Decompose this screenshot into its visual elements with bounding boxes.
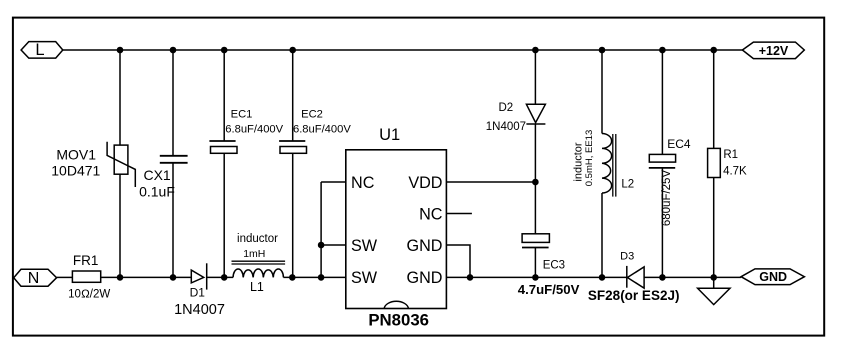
svg-text:inductor: inductor (572, 142, 584, 181)
svg-text:inductor: inductor (237, 233, 278, 245)
svg-text:GND: GND (407, 269, 443, 287)
svg-text:L2: L2 (621, 178, 634, 190)
IC U1 PN8036 (346, 126, 447, 330)
svg-text:1N4007: 1N4007 (486, 121, 526, 133)
wire D3 to GND terminal (644, 276, 741, 278)
junction SW bus (318, 242, 325, 249)
svg-text:L: L (35, 41, 44, 59)
wire FR1 to D1 (101, 276, 192, 278)
varistor MOV1 (51, 50, 135, 277)
inductor L2 (572, 50, 634, 277)
svg-text:0.1uF: 0.1uF (139, 184, 175, 200)
wire U1 VDD to D2 line (446, 181, 535, 183)
resistor FR1 (68, 253, 110, 301)
terminal L (21, 41, 63, 59)
svg-text:+12V: +12V (759, 44, 789, 58)
svg-text:4.7K: 4.7K (723, 166, 747, 178)
svg-text:L1: L1 (250, 280, 264, 294)
capacitor EC1 (209, 50, 283, 277)
terminal +12V (742, 42, 804, 59)
terminal N (14, 269, 57, 287)
junction EC3 bottom rail (532, 274, 539, 281)
diode D1 (174, 263, 225, 318)
junction SW bus bottom rail (318, 274, 325, 281)
svg-text:10Ω/2W: 10Ω/2W (68, 289, 110, 301)
svg-text:R1: R1 (723, 149, 738, 161)
capacitor EC4 (649, 50, 691, 277)
inductor L1 (232, 233, 286, 294)
svg-text:D2: D2 (498, 102, 513, 114)
svg-text:FR1: FR1 (73, 253, 99, 268)
wire N to FR1 (57, 276, 73, 278)
svg-text:6.8uF/400V: 6.8uF/400V (225, 123, 283, 135)
svg-text:EC4: EC4 (667, 137, 691, 151)
diode D2 (486, 50, 546, 234)
wire U1 GND2 to D3 (446, 276, 626, 278)
wire NC/SW bus left of U1 (321, 182, 346, 277)
junction D2 top rail (532, 47, 539, 54)
junction CX1 top rail (170, 47, 177, 54)
wire U1 NC stub (446, 213, 472, 215)
capacitor EC3 (518, 234, 580, 297)
svg-text:D3: D3 (620, 251, 634, 263)
svg-text:SW: SW (351, 237, 378, 255)
svg-text:0.5mH, EE13: 0.5mH, EE13 (584, 130, 595, 187)
svg-text:680uF/25V: 680uF/25V (661, 170, 673, 227)
svg-text:N: N (28, 270, 40, 287)
junction R1 ground bottom rail (710, 274, 717, 281)
junction CX1 bottom rail (170, 274, 177, 281)
svg-text:PN8036: PN8036 (368, 310, 429, 329)
junction EC2 bottom rail (289, 274, 296, 281)
junction R1 top rail (710, 47, 717, 54)
svg-text:GND: GND (407, 237, 443, 255)
junction VDD D2 line (532, 179, 539, 186)
junction EC1 bottom rail (221, 274, 228, 281)
ground (698, 277, 730, 304)
svg-text:1mH: 1mH (243, 248, 265, 260)
wire D1 to L1 (207, 276, 233, 278)
junction L2 bottom rail (599, 274, 606, 281)
svg-text:NC: NC (351, 174, 375, 192)
junction U1 GND pins (467, 274, 474, 281)
wire U1 GND1 to bottom (446, 245, 470, 277)
junction EC2 top rail (289, 47, 296, 54)
svg-text:1N4007: 1N4007 (174, 302, 225, 318)
svg-text:6.8uF/400V: 6.8uF/400V (293, 123, 351, 135)
svg-text:MOV1: MOV1 (56, 147, 96, 163)
resistor R1 (708, 50, 747, 277)
svg-text:EC2: EC2 (301, 109, 323, 121)
svg-text:U1: U1 (379, 126, 400, 144)
svg-text:D1: D1 (190, 286, 206, 300)
svg-text:GND: GND (759, 270, 787, 284)
junction MOV1 top rail (117, 47, 124, 54)
capacitor CX1 (139, 50, 188, 277)
diode D3 (588, 251, 680, 303)
svg-text:SW: SW (351, 269, 378, 287)
junction EC4 top rail (659, 47, 666, 54)
svg-text:CX1: CX1 (143, 167, 170, 183)
svg-text:NC: NC (419, 205, 443, 223)
capacitor EC2 (279, 50, 351, 277)
svg-text:10D471: 10D471 (51, 162, 100, 178)
svg-text:EC3: EC3 (543, 260, 565, 272)
wire L1 to U1 SW pin (283, 276, 345, 278)
svg-text:SF28(or ES2J): SF28(or ES2J) (588, 288, 680, 303)
junction EC4 bottom rail (659, 274, 666, 281)
junction MOV1 bottom rail (117, 274, 124, 281)
svg-text:VDD: VDD (408, 174, 442, 192)
junction EC1 top rail (221, 47, 228, 54)
wire top rail L to +12V (63, 49, 743, 51)
junction L2 top rail (599, 47, 606, 54)
terminal GND (741, 269, 804, 285)
svg-text:4.7uF/50V: 4.7uF/50V (518, 282, 580, 297)
svg-text:EC1: EC1 (231, 109, 253, 121)
